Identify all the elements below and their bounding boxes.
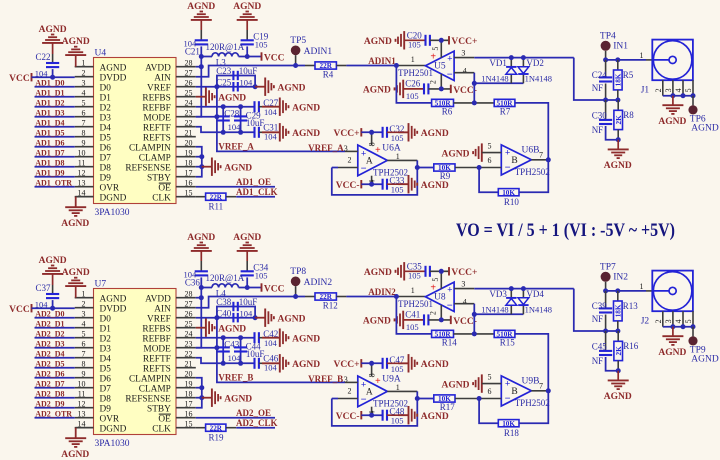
svg-text:13: 13 [78,179,86,188]
wire row22 [196,127,223,133]
svg-text:4: 4 [674,319,683,323]
pin 27 U4.AIN [154,69,196,84]
svg-text:R8: R8 [623,110,634,120]
svg-text:AIN: AIN [154,73,171,83]
svg-text:NF: NF [592,314,604,324]
pin 22 U4.REFTF [143,119,196,134]
pin 2 J1 [654,80,663,96]
svg-text:AD1_D2: AD1_D2 [35,98,64,107]
svg-text:AGND: AGND [691,354,719,364]
svg-text:TPH2501: TPH2501 [398,299,433,309]
junction [221,361,226,366]
wire [387,131,409,133]
resistor R19 22R [196,424,236,442]
svg-text:VCC+: VCC+ [334,129,360,139]
wire [76,197,94,208]
svg-text:AD2_D1: AD2_D1 [35,319,64,328]
svg-text:AGND: AGND [658,117,686,127]
test point TP5 [290,36,332,57]
svg-text:J1: J1 [641,85,650,95]
wire jack gnd [663,95,693,97]
svg-text:+: + [430,282,436,293]
junction [521,55,526,60]
svg-text:D8: D8 [100,394,112,404]
svg-text:2: 2 [348,156,352,165]
capacitor C23 10uF [216,66,257,80]
wire net AD2_OE [196,417,275,419]
pin 17 U4.STBY [147,169,196,184]
svg-text:AGND: AGND [442,149,470,159]
junction [245,285,250,290]
svg-text:AGND: AGND [442,380,470,390]
ground AGND [196,319,247,337]
svg-text:AGND: AGND [278,314,306,324]
wire fb loop [479,168,498,193]
junction [509,55,514,60]
wire net AD1_D5 [35,136,75,138]
svg-text:AD2_D3: AD2_D3 [35,339,64,348]
junction [199,54,204,59]
power port VCC- [336,411,362,422]
svg-text:TP7: TP7 [600,262,616,272]
svg-text:C21: C21 [185,47,200,57]
ground AGND above C22 [39,25,67,43]
net label AD2_D0 [35,309,64,318]
svg-text:REFTS: REFTS [143,364,171,374]
pin 17 U7.STBY [147,400,196,415]
pin 9 U7.D6 [75,370,112,385]
resistor R12 22R [305,293,346,311]
pin 1 U7.AGND [75,290,127,305]
wire [259,131,262,133]
svg-text:AD1_D6: AD1_D6 [35,138,64,147]
power port VCC- [451,316,477,327]
svg-text:+: + [430,51,436,62]
svg-text:VCC-: VCC- [336,412,360,422]
net label AD2_OE [236,408,271,418]
svg-text:8: 8 [82,129,86,138]
net label AD1_D9 [35,168,64,177]
svg-text:D6: D6 [100,143,112,153]
wire VREF row [196,86,217,88]
ground AGND [398,175,449,193]
svg-text:AD1_D7: AD1_D7 [35,148,64,157]
pin 1 label [640,51,644,60]
wire pin4 net [454,73,474,103]
op-amp U6B TPH2502 [501,145,549,177]
wire [196,387,202,389]
wire [361,414,382,416]
svg-text:25: 25 [185,89,193,98]
wire [361,183,382,185]
svg-text:104: 104 [240,77,254,87]
svg-text:AGND: AGND [233,233,261,243]
wire [430,270,449,272]
pin 8 stub [368,132,377,146]
wire [52,43,54,63]
svg-text:8: 8 [368,373,377,377]
svg-text:22R: 22R [210,424,223,432]
svg-text:21: 21 [185,129,193,138]
svg-text:TP8: TP8 [290,267,306,277]
svg-text:ADIN1: ADIN1 [304,47,333,57]
wire [519,160,548,192]
net label AD2_D8 [35,389,64,398]
resistor R4 22R [305,62,346,80]
svg-text:120R@1A: 120R@1A [206,42,245,52]
pin 2 U4.DVDD [75,69,127,84]
pin 15 U7.CLK [152,420,196,435]
wire net AD2_D7 [35,387,75,389]
svg-text:27: 27 [185,300,193,309]
wire VREF vertical [217,318,345,383]
svg-text:AD1_D3: AD1_D3 [35,108,64,117]
ground AGND [442,143,482,161]
svg-text:23: 23 [185,340,193,349]
pin 16 U7.OE [158,410,195,425]
svg-text:VREF_A: VREF_A [218,142,254,152]
svg-text:VCC: VCC [264,284,285,294]
junction [199,154,204,159]
wire net AD1_D3 [35,116,75,118]
pin 4 J2 [674,311,683,327]
resistor R5 18K [614,60,634,100]
net label AD2_OTR [35,409,72,418]
svg-text:AGND: AGND [100,63,127,73]
svg-text:10uF: 10uF [246,118,265,128]
svg-text:8: 8 [368,142,377,146]
svg-text:REFBS: REFBS [142,93,170,103]
svg-text:MODE: MODE [143,344,171,354]
net label AD2_D6 [35,369,64,378]
svg-text:R15: R15 [500,337,516,347]
capacitor C36 104 [184,270,208,288]
svg-text:22: 22 [185,350,193,359]
diode VD1 1N4148 [481,58,516,84]
svg-text:AGND: AGND [604,392,632,402]
junction [50,75,55,80]
pin 5 J2 [684,311,693,327]
wire REFTS [196,116,217,118]
svg-text:REFBF: REFBF [142,334,170,344]
wire fb [396,66,431,103]
wire [455,167,479,169]
wire net AD2_D3 [35,347,75,349]
wire fb to UB out [515,103,548,160]
svg-text:U4: U4 [95,49,107,59]
wire [346,65,396,67]
wire pin3 out [454,288,574,290]
svg-text:U9B: U9B [522,376,540,386]
net label AD1_D0 [35,78,64,87]
junction [603,57,608,62]
svg-text:AGND: AGND [292,103,320,113]
ground AGND above C37 [39,256,67,274]
svg-text:AVDD: AVDD [145,63,171,73]
wire [246,20,248,40]
svg-text:CLK: CLK [152,193,171,203]
svg-text:AD2_CLK: AD2_CLK [236,418,278,428]
pin 7 out [531,150,548,159]
svg-text:5: 5 [82,99,86,108]
svg-text:R10: R10 [504,197,520,207]
wire [246,46,248,56]
svg-text:1: 1 [640,51,644,60]
wire loopB left [222,338,224,364]
wire net AD1_D1 [35,96,75,98]
svg-text:R6: R6 [442,106,453,116]
net label AD1_D1 [35,88,64,97]
wire [346,296,396,298]
power port VCC- [451,85,477,96]
test point TP9 [688,327,718,365]
svg-text:OVR: OVR [100,414,120,424]
svg-text:R14: R14 [442,337,458,347]
wire VCC to DVDD [32,307,75,309]
junction [477,165,482,170]
pin 2 stub [429,305,442,320]
ground AGND [364,31,404,49]
svg-text:R5: R5 [623,70,634,80]
wire [455,398,479,400]
power port VCC+ [334,359,362,370]
svg-text:6: 6 [82,340,86,349]
diode VD4 1N4148 [518,289,552,315]
net label ADIN1 [368,56,396,66]
svg-text:A: A [366,388,373,398]
power port VCC+ [449,36,477,47]
wire [387,414,409,416]
svg-text:NF: NF [592,83,604,93]
wire [200,251,202,271]
svg-text:R17: R17 [440,402,456,412]
svg-text:VREF: VREF [147,83,171,93]
svg-text:26: 26 [185,310,193,319]
junction [615,57,620,62]
wire row22 [196,358,223,364]
svg-text:C38: C38 [216,297,232,307]
wire [196,166,202,168]
svg-text:D4: D4 [100,354,112,364]
wire [76,428,94,439]
svg-text:VCC: VCC [9,74,30,84]
svg-text:16: 16 [185,179,193,188]
value 104 [228,353,242,363]
net label AD1_D8 [35,158,64,167]
svg-text:105: 105 [391,364,404,374]
ground AGND [202,158,253,176]
svg-text:AGND: AGND [364,268,392,278]
net label VREF_B [218,373,253,383]
junction [369,413,374,418]
svg-text:REFSENSE: REFSENSE [125,163,171,173]
svg-text:AD2_D6: AD2_D6 [35,369,64,378]
svg-text:DGND: DGND [100,193,127,203]
junction [439,38,444,43]
svg-text:2K: 2K [615,346,623,356]
svg-text:5: 5 [684,319,693,323]
pin 20 U7.CLAMPIN [129,370,196,385]
svg-text:19: 19 [185,380,193,389]
svg-text:REFTF: REFTF [143,123,171,133]
svg-text:ADIN2: ADIN2 [368,287,396,297]
svg-text:18: 18 [185,159,193,168]
resistor R8 2K [614,100,634,140]
svg-text:ADIN2: ADIN2 [304,278,333,288]
svg-text:5: 5 [431,278,440,282]
svg-text:−: − [505,393,511,404]
wire loopB left [222,107,224,133]
svg-text:U6B: U6B [522,145,540,155]
svg-text:STBY: STBY [147,173,171,183]
pin 3 label [344,375,348,384]
IC U7 3PA1030 body [94,280,177,450]
wire top node [606,290,653,292]
pin 19 U4.CLAMP [139,149,196,164]
capacitor C28 [217,108,240,120]
svg-text:R16: R16 [623,341,639,351]
svg-text:2: 2 [348,387,352,396]
svg-text:1: 1 [82,59,86,68]
ground AGND below J2 [658,327,686,358]
svg-text:7: 7 [539,150,543,159]
wire diode bottom [474,82,523,84]
wire [387,183,409,185]
test point TP6 [688,96,718,134]
svg-text:AGND: AGND [421,181,449,191]
svg-text:17: 17 [185,400,193,409]
junction [509,286,514,291]
net label AD1_D5 [35,128,64,137]
ground AGND above C19 [233,2,261,20]
svg-text:AGND: AGND [604,161,632,171]
pin 10 U4.D7 [75,149,112,164]
wire AIN [196,297,305,308]
ground AGND [262,354,320,372]
ground AGND [262,98,320,116]
resistor R6 510R [432,99,454,116]
svg-text:+: + [447,285,452,295]
ground AGND [604,140,632,171]
svg-text:5: 5 [431,47,440,51]
ground AGND below DGND [61,438,89,460]
svg-text:120R@1A: 120R@1A [206,273,245,283]
wire [387,362,409,364]
svg-text:C26: C26 [405,79,421,89]
wire clamp rows [196,147,202,177]
pin 5 stub [431,271,441,288]
ground AGND [398,354,449,372]
ground AGND [196,88,247,106]
svg-text:AD1_D1: AD1_D1 [35,88,64,97]
svg-text:VREF: VREF [147,314,171,324]
capacitor C22 104 [35,52,59,78]
net label AD1_D3 [35,108,64,117]
svg-text:AGND: AGND [421,360,449,370]
wire jack gnd [663,326,693,328]
pin 5 stub [431,40,441,57]
svg-text:7: 7 [539,381,543,390]
svg-text:U7: U7 [95,280,107,290]
pin 2 wire [332,156,358,168]
wire [361,131,382,133]
svg-text:22R: 22R [210,193,223,201]
junction [199,395,204,400]
net label AD1_D6 [35,138,64,147]
svg-text:VCC: VCC [9,305,30,315]
junction [439,86,444,91]
junction [293,63,298,68]
connector J2 BNC [641,271,693,327]
svg-text:11: 11 [78,390,86,399]
junction [199,164,204,169]
junction [615,98,620,103]
net label AD2_D1 [35,319,64,328]
svg-text:3: 3 [461,48,465,57]
svg-text:R11: R11 [209,202,224,212]
wire [454,333,495,335]
svg-text:NF: NF [592,356,604,366]
svg-text:REFBS: REFBS [142,324,170,334]
svg-text:AGND: AGND [363,317,391,327]
pin 24 U7.REFBF [142,330,195,345]
svg-text:AGND: AGND [218,324,246,334]
wire [217,317,255,319]
pin 5 J1 [684,80,693,96]
svg-text:5: 5 [684,88,693,92]
junction [394,294,399,299]
svg-text:10: 10 [78,380,86,389]
junction [214,114,219,119]
ground AGND [398,123,449,141]
svg-text:AGND: AGND [421,129,449,139]
svg-text:AGND: AGND [61,450,89,460]
svg-text:AGND: AGND [224,394,252,404]
resistor R10 10K [498,189,519,207]
svg-text:TP4: TP4 [600,31,616,41]
ground AGND [255,78,306,96]
ground AGND above C34 [233,233,261,251]
svg-text:STBY: STBY [147,404,171,414]
svg-text:17: 17 [185,169,193,178]
svg-text:4: 4 [463,66,467,75]
svg-text:AGND: AGND [187,233,215,243]
svg-text:2K: 2K [615,115,623,125]
wire net AD2_CLK [236,427,275,429]
wire [454,102,495,104]
svg-text:VCC-: VCC- [453,86,477,96]
pin 3 J1 [664,80,673,96]
pin 25 U4.REFBS [142,89,195,104]
pin 23 U4.MODE [143,109,195,124]
junction [238,130,243,135]
svg-text:10K: 10K [502,189,515,197]
svg-text:AGND: AGND [278,83,306,93]
wire net AD2_D0 [35,317,75,319]
svg-text:24: 24 [185,330,193,339]
svg-text:TPH2502: TPH2502 [515,167,550,177]
svg-text:AGND: AGND [39,256,67,266]
inductor L3 120R@1A [206,42,245,67]
pin 3 J2 [664,311,673,327]
svg-text:2: 2 [654,88,663,92]
svg-text:105: 105 [391,133,404,143]
svg-text:18K: 18K [614,73,622,86]
capacitor C38 10uF [216,297,257,311]
svg-text:REFTF: REFTF [143,354,171,364]
pin 3 label [461,279,465,288]
junction [199,64,204,69]
